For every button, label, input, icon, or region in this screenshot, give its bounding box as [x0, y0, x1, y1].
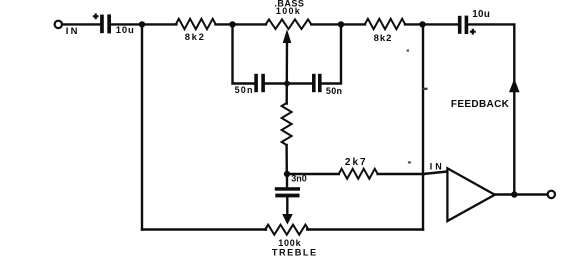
capacitor C5 10u (output): [458, 16, 476, 35]
wire R3 to C5: [405, 23, 458, 25]
svg-text:10u: 10u: [116, 25, 135, 36]
input terminal: [55, 21, 62, 28]
svg-text:2k7: 2k7: [345, 157, 368, 168]
output terminal: [548, 191, 555, 198]
svg-text:IN: IN: [430, 162, 445, 172]
resistor R4 2k7: [339, 169, 378, 179]
wire R4 to amp input: [378, 173, 424, 175]
capacitor C2 50n (left): [254, 74, 265, 92]
feedback arrow (up): [509, 79, 520, 93]
wire R1 to bass pot: [216, 23, 267, 25]
wire amp output: [495, 193, 548, 195]
capacitor C1 10u: [93, 13, 111, 33]
svg-text:50n: 50n: [326, 86, 342, 96]
resistor R3 8k2 (second): [365, 19, 405, 29]
capacitor C3 50n (right): [312, 74, 322, 92]
svg-text:8k2: 8k2: [374, 33, 393, 44]
node G (output junction): [511, 191, 517, 197]
scan speck 3: [407, 50, 409, 52]
svg-text:8k2: 8k2: [185, 32, 206, 43]
resistor R2 (vertical, wiper to node E): [282, 103, 292, 145]
svg-text:IN: IN: [66, 26, 80, 37]
scan speck 2: [408, 161, 411, 163]
wire node C down to C3: [322, 24, 341, 83]
treble wiper arrow (down): [286, 197, 288, 217]
bass pot wiper arrow: [283, 29, 292, 43]
node D (wiper junction): [284, 81, 290, 87]
wire input terminal to C1: [62, 23, 99, 25]
node E (treble/2k7 junction): [284, 171, 290, 177]
svg-text:100k: 100k: [276, 6, 301, 16]
node C (bass pot right): [338, 21, 344, 27]
potentiometer VR1 BASS 100k: [266, 19, 311, 29]
wire node B down to C2: [233, 24, 255, 83]
scan speck 1: [422, 88, 428, 90]
wire bass pot to node C: [311, 23, 365, 25]
wire right vertical (node F down to bottom rail): [422, 24, 424, 229]
capacitor C4 3n0: [275, 187, 300, 197]
wire left vertical (node A down to bottom rail): [141, 24, 143, 229]
svg-text:50n: 50n: [235, 85, 254, 95]
wire node E to R4: [287, 173, 339, 175]
svg-text:FEEDBACK: FEEDBACK: [451, 99, 510, 110]
wire R2 to node E: [285, 145, 288, 174]
node B (bass pot left): [229, 21, 235, 27]
node F (feedback tap): [419, 21, 425, 27]
wire C1 to R1: [111, 23, 176, 25]
potentiometer VR2 TREBLE 100k: [265, 225, 309, 235]
bottom rail wire: [142, 228, 266, 230]
op-amp U1: [447, 168, 494, 221]
svg-text:TREBLE: TREBLE: [272, 248, 318, 258]
svg-text:100k: 100k: [278, 238, 301, 248]
node A (input junction): [139, 21, 145, 27]
wire C5 to feedback line: [468, 24, 514, 194]
svg-text:10u: 10u: [472, 9, 490, 20]
wire C2 to node D to C3: [265, 82, 312, 84]
resistor R1 8k2: [176, 19, 216, 29]
